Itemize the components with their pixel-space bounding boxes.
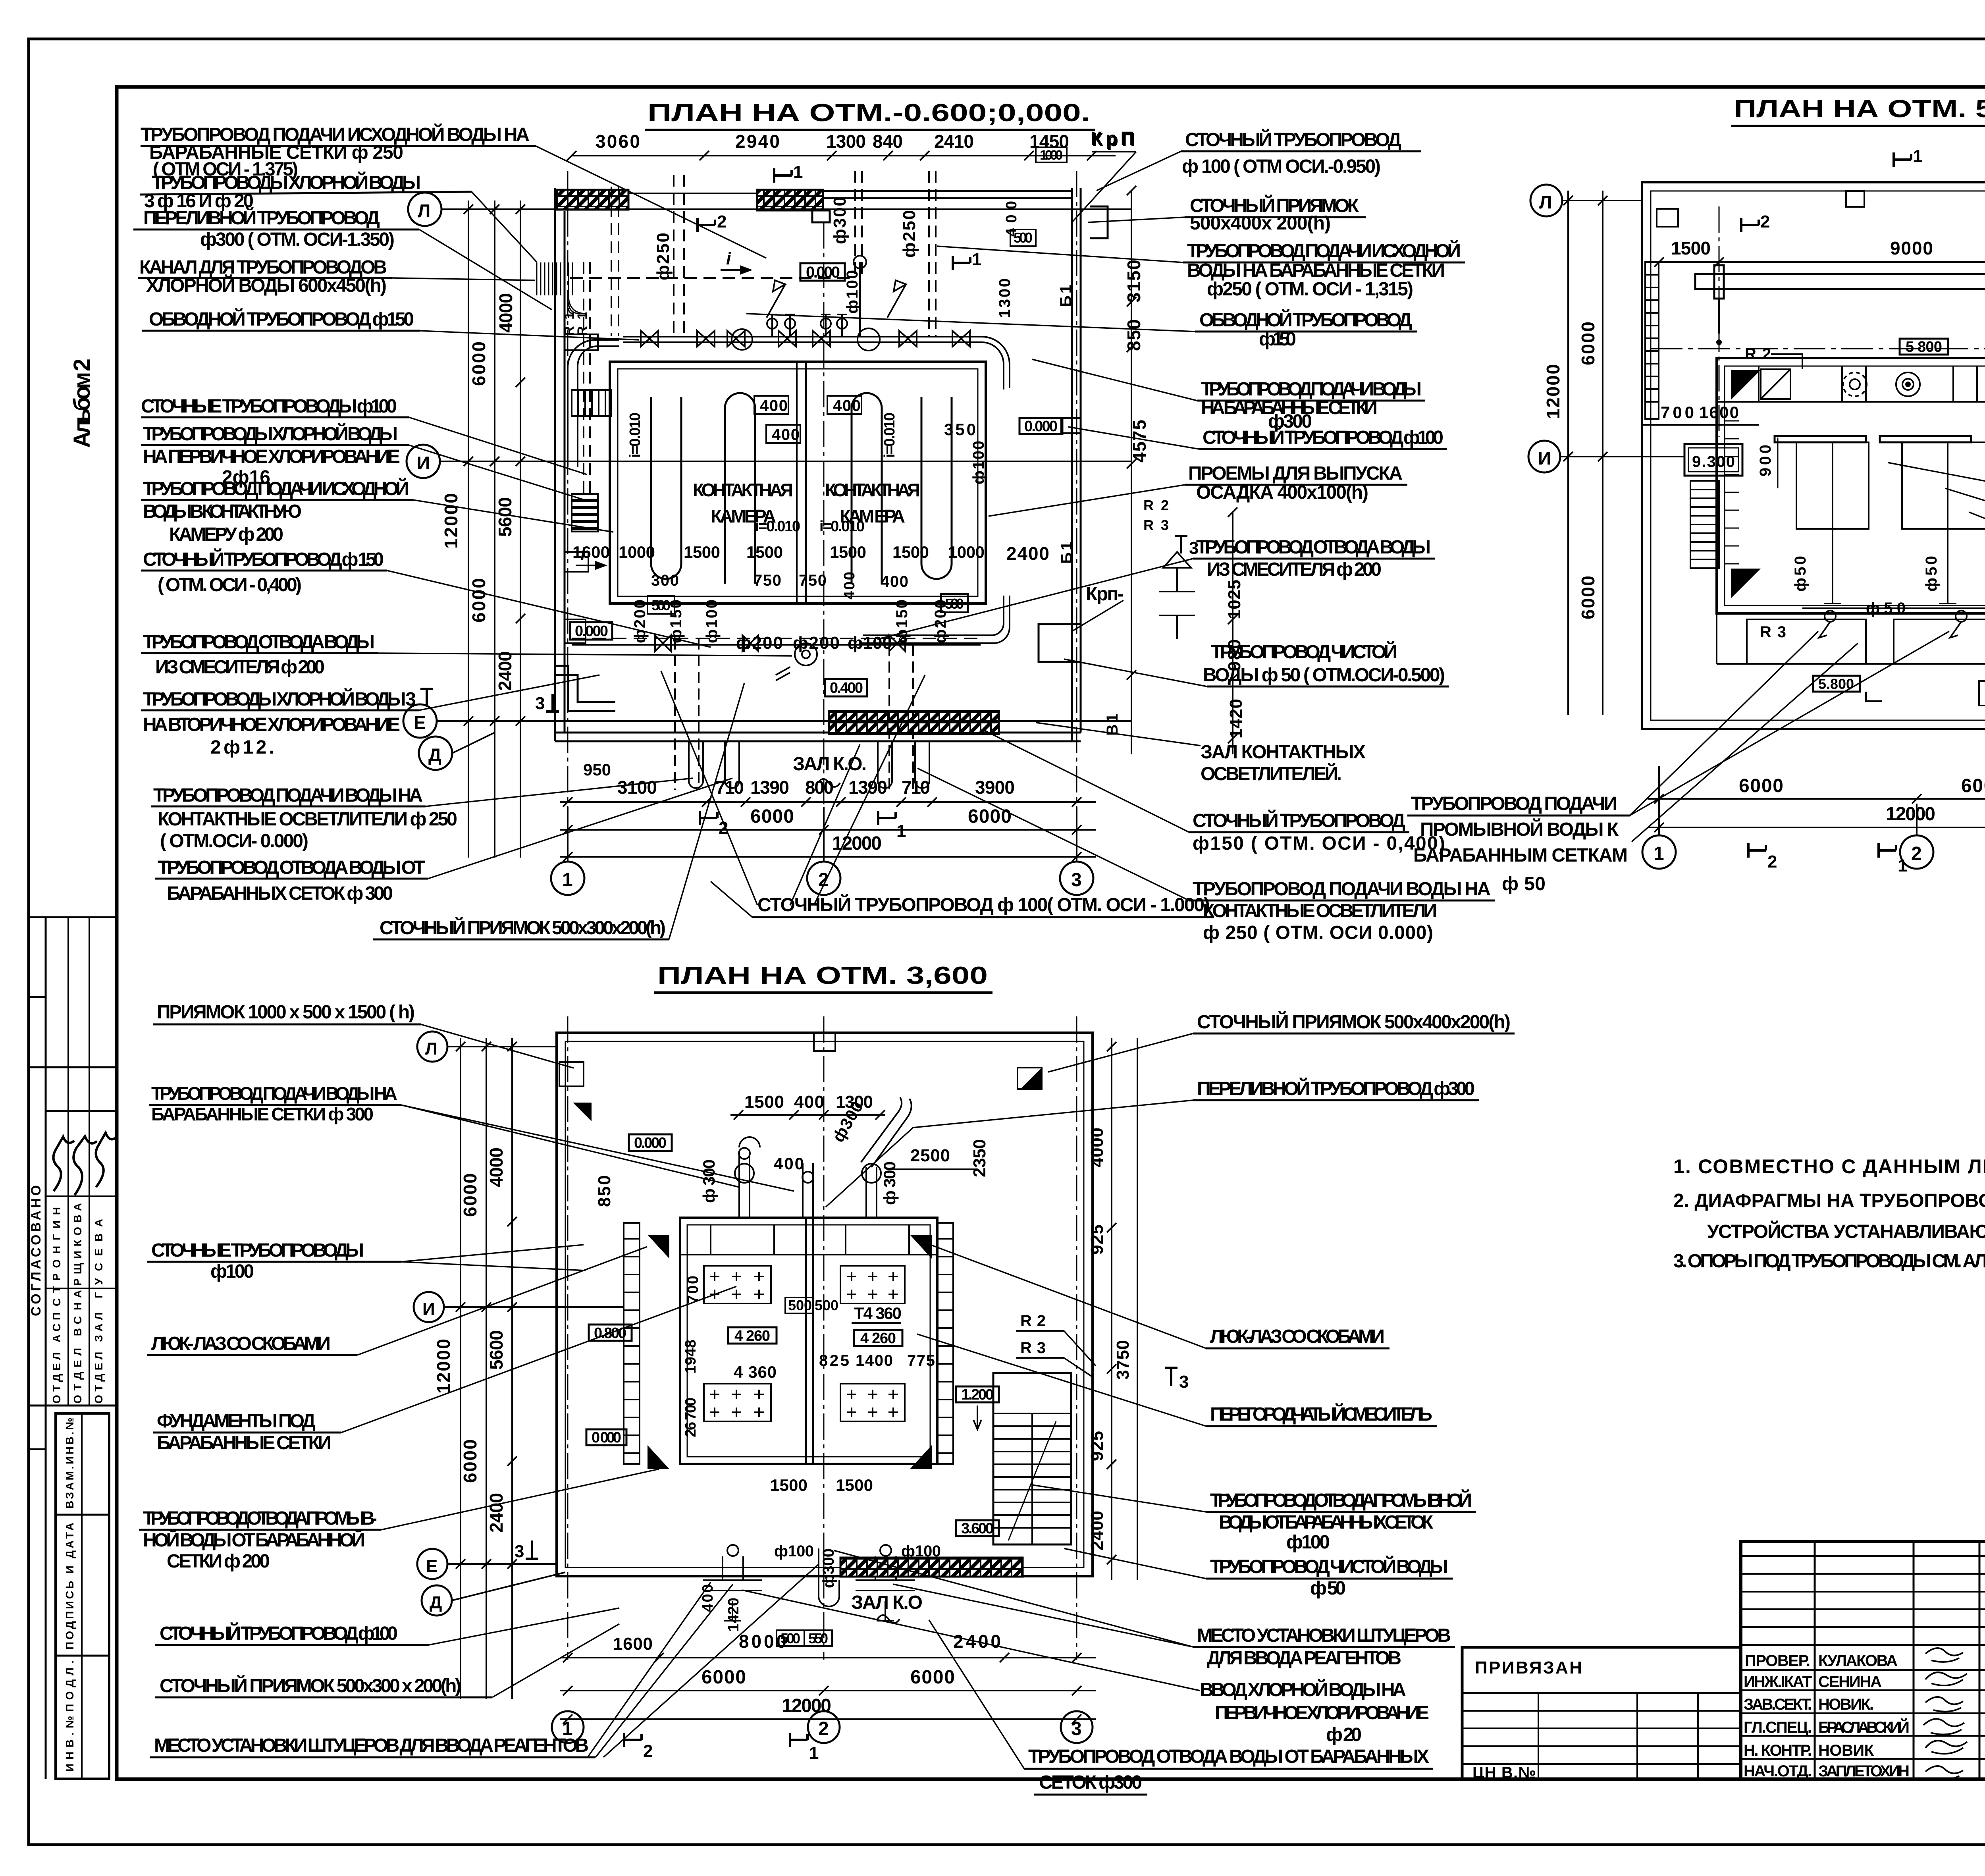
svg-text:ПРОМЫВНОЙ ВОДЫ К: ПРОМЫВНОЙ ВОДЫ К [1420,818,1619,840]
svg-text:1948: 1948 [682,1340,699,1374]
svg-text:СТОЧНЫЙ ПРИЯМОК 500х400х200(: СТОЧНЫЙ ПРИЯМОК 500х400х200(h) [1197,1011,1511,1033]
svg-text:2400: 2400 [495,651,515,691]
svg-text:ф 250 ( ОТМ. ОСИ 0.000): ф 250 ( ОТМ. ОСИ 0.000) [1203,922,1433,943]
plan2 building outer walls [1642,182,1985,729]
svg-text:9.300: 9.300 [1692,453,1735,470]
plan1 black striped block [572,494,598,532]
svg-text:Б1: Б1 [1058,542,1075,564]
svg-text:ЗАЛ К.О: ЗАЛ К.О [851,1592,923,1613]
svg-text:1500: 1500 [746,543,783,561]
plan2 top wall lugs [1846,191,1864,207]
svg-text:500: 500 [815,1297,838,1313]
svg-text:ф200: ф200 [793,633,840,653]
plan1 bottom wall [555,733,1081,741]
svg-text:ОБВОДНОЙ ТРУБОПРОВОД: ОБВОДНОЙ ТРУБОПРОВОД [1199,309,1412,331]
plan2 f50 taps [1792,556,1985,638]
svg-text:2410: 2410 [934,131,974,152]
svg-text:КОНТАКТНАЯ: КОНТАКТНАЯ [693,480,793,500]
svg-text:3.600: 3.600 [961,1520,994,1537]
plan3 dim 2500 2350 850 [595,1139,989,1207]
svg-text:ПРИЯМОК 1000 х 500 х 1500 ( h: ПРИЯМОК 1000 х 500 х 1500 ( h) [157,1002,415,1023]
svg-text:Альбом 2: Альбом 2 [69,359,95,448]
plan2 crane rails dashdot [1719,206,1985,715]
svg-text:ТРУБОПРОВОД ОТВОДА ПРОМЫВ-: ТРУБОПРОВОД ОТВОДА ПРОМЫВ- [143,1508,377,1529]
svg-text:ЛЮК- ЛАЗ СО СКОБАМИ: ЛЮК- ЛАЗ СО СКОБАМИ [151,1333,331,1354]
plan3 axis circles 1 2 3 [552,1711,1093,1743]
plan3 stairs level boxes [956,1386,999,1537]
svg-text:КУЛАКОВА: КУЛАКОВА [1818,1652,1898,1670]
svg-text:2400: 2400 [1087,1511,1107,1550]
plan1 section T3 right [1175,536,1199,558]
plan2 horizontal line below beam [1651,348,1985,349]
svg-text:СТОЧНЫЙ ПРИЯМОК 500х300х200(h: СТОЧНЫЙ ПРИЯМОК 500х300х200(h) [380,917,666,939]
svg-text:2. ДИАФРАГМЫ НА ТРУБОПРОВОД: 2. ДИАФРАГМЫ НА ТРУБОПРОВОДА ПОДАЧИ СЫРО… [1673,1190,1985,1211]
svg-text:И: И [417,453,430,473]
svg-text:400: 400 [794,1092,824,1112]
plan1 baffle U left chamber [651,397,681,579]
plan2 crane beam [1695,265,1985,299]
plan2 inner chamber box [1717,358,1985,613]
svg-text:2: 2 [1911,843,1922,864]
svg-text:Е: Е [426,1556,437,1576]
plan3 title [654,962,992,993]
plan1 left outside step pipes [555,666,615,711]
svg-text:ф 100 ( ОТМ ОСИ.-0.950): ф 100 ( ОТМ ОСИ.-0.950) [1182,156,1381,177]
plan1 left dim chains [468,201,525,858]
plan3 level boxes left [586,1325,632,1446]
plan1 right outside wall pieces [1039,206,1195,662]
svg-text:ИНЖ.IКАТ: ИНЖ.IКАТ [1744,1673,1812,1691]
svg-text:400: 400 [841,572,858,600]
plan1 i arrows [576,249,750,569]
svg-text:0.000: 0.000 [634,1135,667,1151]
svg-text:700: 700 [685,1276,701,1303]
svg-text:2: 2 [1760,212,1770,231]
plan1 axis circle L [408,193,441,226]
plan2 left wall hatch band [1645,262,1659,419]
svg-text:И: И [1538,448,1551,469]
svg-text:1: 1 [793,162,803,182]
svg-text:ф250: ф250 [653,233,673,280]
title block signatures [1923,1648,1967,1780]
plan1 building axis dashdot lines [568,171,1077,858]
svg-text:СТОЧНЫЙ ТРУБОПРОВОД: СТОЧНЫЙ ТРУБОПРОВОД [1185,129,1401,150]
plan3 stairs right [993,1373,1071,1544]
svg-text:СТОЧНЫЕ ТРУБОПРОВОДЫ: СТОЧНЫЕ ТРУБОПРОВОДЫ [151,1240,364,1261]
svg-text:12000: 12000 [782,1695,831,1716]
svg-text:1.200: 1.200 [961,1386,994,1403]
plan1 contact chamber outer box [610,362,986,603]
svg-text:900: 900 [1757,445,1774,476]
svg-text:НАРЩИКОВА: НАРЩИКОВА [71,1203,84,1310]
svg-text:НОВИК: НОВИК [1818,1742,1874,1759]
svg-text:4575: 4575 [1129,420,1150,463]
svg-text:0.000: 0.000 [1024,418,1058,435]
svg-text:6000: 6000 [1739,775,1783,796]
plan1 bottom dims row1 [583,760,1015,798]
svg-text:ТРУБОПРОВОД ПОДАЧИ ИСХОДНОЙ: ТРУБОПРОВОД ПОДАЧИ ИСХОДНОЙ [143,478,409,499]
svg-text:НОЙ ВОДЫ ОТ БАРАБАННОЙ: НОЙ ВОДЫ ОТ БАРАБАННОЙ [143,1529,365,1551]
svg-text:ПЕРЕЛИВНОЙ ТРУБОПРОВОД: ПЕРЕЛИВНОЙ ТРУБОПРОВОД [143,207,380,229]
svg-text:ТРУБОПРОВОД ОТВОДА ВОДЫ ОТ: ТРУБОПРОВОД ОТВОДА ВОДЫ ОТ [158,857,425,878]
svg-text:ВОДЫ В КОНТАКТНУЮ: ВОДЫ В КОНТАКТНУЮ [143,501,302,522]
plan2 level box 5800 bottom [1813,676,1882,701]
svg-text:850: 850 [1124,319,1144,351]
svg-text:850: 850 [595,1175,614,1207]
plan3 axis dashdot verticals [568,1016,1077,1660]
svg-text:ЗАПЛЕТОХИН: ЗАПЛЕТОХИН [1818,1762,1910,1780]
svg-text:Крп-: Крп- [1086,584,1124,605]
svg-text:ф300: ф300 [820,1548,837,1588]
plan3 right hatch wall band [937,1223,953,1464]
plan1 valve manifold pipe [623,337,982,342]
svg-text:ТРУБОПРОВОДЫ ХЛОРНОЙ ВОДЫ: ТРУБОПРОВОДЫ ХЛОРНОЙ ВОДЫ [143,423,398,445]
svg-text:1000: 1000 [619,543,655,561]
svg-text:ф150: ф150 [667,600,685,643]
svg-text:12000: 12000 [441,493,461,549]
plan1 lower pipe labels [631,600,949,653]
svg-text:1: 1 [896,821,906,841]
plan1 left wall internal stairs [572,390,611,416]
svg-text:СТОЧНЫЙ ТРУБОПРОВОД ф 150: СТОЧНЫЙ ТРУБОПРОВОД ф 150 [143,548,384,570]
svg-text:ТРУБОПРОВОД ОТВОДА ВОДЫ: ТРУБОПРОВОД ОТВОДА ВОДЫ [143,632,375,653]
svg-text:СТОЧНЫЙ ТРУБОПРОВОД: СТОЧНЫЙ ТРУБОПРОВОД [1193,810,1405,831]
svg-text:1300: 1300 [826,131,866,152]
plan1 right leaders [746,151,1207,900]
plan3 right dim chains [1107,1038,1137,1580]
svg-text:3100: 3100 [617,777,657,798]
svg-text:1: 1 [809,1743,819,1763]
svg-text:1400: 1400 [856,1352,893,1369]
plan1 top wall lines [628,191,1072,198]
svg-text:ТРУБОПРОВОД ОТВОДА ВОДЫ: ТРУБОПРОВОД ОТВОДА ВОДЫ [1196,537,1431,558]
plan1 chamber texts [627,413,920,535]
plan2 feed pipe label left [1411,793,1628,895]
plan2 level box 5800 top [1900,339,1948,355]
svg-text:2400: 2400 [486,1493,507,1533]
svg-text:ф 50: ф 50 [1502,873,1546,895]
svg-text:400: 400 [772,426,800,443]
svg-text:ТРУБОПРОВОД ЧИСТОЙ ВОДЫ: ТРУБОПРОВОД ЧИСТОЙ ВОДЫ [1210,1556,1448,1577]
svg-text:1500: 1500 [836,1476,873,1494]
svg-text:ТРУБОПРОВОД ПОДАЧИ ИСХОДНОЙ: ТРУБОПРОВОД ПОДАЧИ ИСХОДНОЙ [1187,240,1461,262]
plan1 left label underlines [133,146,669,939]
plan2 left dim chains [1568,191,1603,715]
svg-text:ТРУБОПРОВОД ПОДАЧИ ВОДЫ НА: ТРУБОПРОВОД ПОДАЧИ ВОДЫ НА [153,785,423,806]
svg-text:ТРУБОПРОВОДЫ ХЛОРНОЙ ВОДЫ: ТРУБОПРОВОДЫ ХЛОРНОЙ ВОДЫ [152,172,421,193]
svg-text:СЕТОК ф300: СЕТОК ф300 [1039,1772,1142,1793]
plan3 level box 0.000 top [629,1134,672,1151]
plan3 left leaders [341,1024,819,1757]
svg-text:ТРУБОПРОВОД ПОДАЧИ ВОДЫ: ТРУБОПРОВОД ПОДАЧИ ВОДЫ [1201,379,1422,400]
plan1 axis circle 3 [1060,807,1093,895]
plan1 title [645,99,1095,130]
plan3 small dims inside [682,1276,935,1494]
svg-text:ПЛАН НА ОТМ. 3,600: ПЛАН НА ОТМ. 3,600 [657,962,988,989]
plan1 right side dim chains [1127,186,1237,754]
svg-text:Т4 360: Т4 360 [854,1304,902,1323]
svg-text:СЕНИНА: СЕНИНА [1818,1673,1882,1691]
svg-text:500: 500 [788,1297,812,1313]
svg-text:ф300 ( ОТМ. ОСИ-1.350): ф300 ( ОТМ. ОСИ-1.350) [200,229,395,250]
plan1 right label underlines [1181,151,1495,900]
plan1 axis circle 2 [807,807,840,895]
plan3 left hatch wall band [624,1223,640,1464]
svg-text:4 360: 4 360 [734,1363,777,1381]
svg-text:1: 1 [1913,147,1922,166]
left stamp column verticals [28,917,89,1779]
svg-text:3: 3 [535,694,545,713]
svg-text:12000: 12000 [1886,804,1935,825]
svg-text:2: 2 [717,212,727,231]
svg-text:СОГЛАСОВАНО: СОГЛАСОВАНО [29,1185,44,1316]
plan2 top dims [1671,238,1985,258]
svg-text:i=0.010: i=0.010 [627,413,644,458]
svg-text:Д: Д [428,744,441,765]
svg-text:0 000: 0 000 [592,1429,621,1446]
svg-text:1025: 1025 [1225,580,1244,619]
plan3 R2 R3 labels [1016,1312,1096,1378]
svg-text:БАРАБАННЫХ СЕТОК ф 300: БАРАБАННЫХ СЕТОК ф 300 [167,883,393,904]
svg-text:i: i [726,249,731,268]
plan2 axis I circle [1528,441,1684,472]
svg-text:400: 400 [774,1154,804,1173]
svg-text:ЗАВ.СЕКТ.: ЗАВ.СЕКТ. [1744,1696,1812,1713]
svg-text:ф 20: ф 20 [1326,1724,1362,1745]
svg-text:1600: 1600 [613,1634,653,1654]
svg-text:825: 825 [819,1352,849,1369]
svg-text:i=0.010: i=0.010 [755,518,800,535]
plan1 baffle ∩ left chamber [725,393,755,584]
svg-text:700: 700 [1661,403,1694,422]
svg-text:МЕСТО УСТАНОВКИ ШТУЦЕРОВ: МЕСТО УСТАНОВКИ ШТУЦЕРОВ [1197,1625,1451,1646]
svg-text:3: 3 [1179,1372,1189,1392]
svg-text:6000: 6000 [910,1667,955,1688]
svg-text:710: 710 [715,777,744,798]
svg-text:НОВИК.: НОВИК. [1818,1696,1874,1713]
svg-text:МЕСТО УСТАНОВКИ ШТУЦЕРОВ ДЛ: МЕСТО УСТАНОВКИ ШТУЦЕРОВ ДЛЯ ВВОДА РЕАГЕ… [154,1735,589,1756]
plan2 chamber top cells [1717,366,1985,402]
svg-text:5 800: 5 800 [1906,339,1942,355]
svg-text:ф150 ( ОТМ. ОСИ - 0,400): ф150 ( ОТМ. ОСИ - 0,400) [1193,833,1445,854]
svg-text:5600: 5600 [495,497,515,537]
svg-text:4 260: 4 260 [734,1328,770,1344]
signatures squiggles [54,1137,75,1191]
svg-text:ОБВОДНОЙ ТРУБОПРОВОД ф150: ОБВОДНОЙ ТРУБОПРОВОД ф150 [149,308,414,330]
svg-text:2: 2 [1767,852,1777,871]
plan2 title [1731,95,1985,126]
svg-text:1500: 1500 [770,1476,807,1494]
svg-text:12000: 12000 [433,1339,454,1394]
plan3 foundation blocks with plus marks [704,1266,905,1421]
plan3 top dims 1500 400 1300 [744,1092,873,1112]
svg-text:ПЕРВИЧНОЕ ХЛОРИРОВАНИЕ: ПЕРВИЧНОЕ ХЛОРИРОВАНИЕ [1215,1702,1429,1724]
plan1 section marks bottom [698,162,981,841]
svg-text:0.000: 0.000 [575,623,608,640]
svg-text:925: 925 [1087,1224,1107,1255]
svg-text:4000: 4000 [1087,1128,1107,1167]
svg-text:500х400х 200(h): 500х400х 200(h) [1190,213,1331,234]
svg-text:3. ОПОРЫ ПОД ТРУБОПРОВОДЫ: 3. ОПОРЫ ПОД ТРУБОПРОВОДЫ СМ. АЛЬБОМ 3. [1673,1251,1985,1272]
svg-text:1420: 1420 [725,1598,742,1632]
svg-text:710: 710 [902,777,930,798]
plan3 bottom dims row2 [701,1667,955,1688]
svg-text:925: 925 [1087,1431,1107,1461]
plan3 black triangles chamber [648,1235,932,1469]
plan1 hydrant symbols on manifold [767,280,906,337]
title block main row line [1741,1644,1985,1646]
svg-text:ф50: ф50 [1923,556,1940,592]
svg-text:ТРУБОПРОВОД ПОДАЧИ ВОДЫ НА: ТРУБОПРОВОД ПОДАЧИ ВОДЫ НА [151,1083,397,1104]
svg-text:БРАСЛАВСКИЙ: БРАСЛАВСКИЙ [1818,1718,1910,1736]
title block name rows [1741,1670,1985,1759]
svg-text:ПРОВЕР.: ПРОВЕР. [1745,1652,1810,1670]
svg-text:26 700: 26 700 [682,1398,699,1437]
left stamp horizontals [28,917,117,1449]
plan3 500 550 boxes [777,1630,832,1647]
svg-text:ТРУБОПРОВОД ПОДАЧИ ВОДЫ НА: ТРУБОПРОВОД ПОДАЧИ ВОДЫ НА [1193,879,1491,900]
plan3 T3 mark right [1165,1368,1189,1392]
title block upper mini table [1741,1556,1985,1627]
svg-text:ПРОЕМЫ ДЛЯ ВЫПУСКА: ПРОЕМЫ ДЛЯ ВЫПУСКА [1188,463,1403,484]
svg-text:Л: Л [418,201,430,221]
plan3 bottom dims row1 [613,1631,1001,1654]
svg-text:( ОТМ.ОСИ- 0.000): ( ОТМ.ОСИ- 0.000) [160,831,308,852]
svg-text:БАРАБАННЫЕ СЕТКИ: БАРАБАННЫЕ СЕТКИ [157,1433,331,1454]
svg-text:СТОЧНЫЙ ПРИЯМОК 500х300 х 20: СТОЧНЫЙ ПРИЯМОК 500х300 х 200(h) [160,1675,461,1697]
svg-text:СТОЧНЫЙ ТРУБОПРОВОД ф100: СТОЧНЫЙ ТРУБОПРОВОД ф100 [160,1622,398,1644]
svg-text:КрП: КрП [1091,128,1134,149]
plan1 bottom dim line1 [560,797,1096,807]
svg-text:ТРУБОПРОВОД ПОДАЧИ: ТРУБОПРОВОД ПОДАЧИ [1411,793,1617,814]
plan2 R3 labels bottom [1760,623,1985,641]
svg-text:ф100: ф100 [844,270,861,314]
svg-text:1390: 1390 [750,777,789,798]
svg-text:2: 2 [818,1718,829,1739]
plan1 top-middle hatched wall [757,190,823,210]
plan1 axis circle E [403,704,437,738]
svg-text:1: 1 [1898,856,1907,875]
plan2 dim 900 [1757,438,1778,488]
svg-text:6000: 6000 [1961,775,1985,796]
plan1 level boxes [570,147,1067,696]
svg-text:500: 500 [1014,229,1033,246]
svg-text:СТОЧНЫЙ ТРУБОПРОВОД ф100: СТОЧНЫЙ ТРУБОПРОВОД ф100 [1203,426,1443,448]
svg-text:1000: 1000 [1040,148,1063,163]
svg-text:840: 840 [873,131,903,152]
svg-text:i=0.010: i=0.010 [881,413,898,458]
plan1 axis circle I [407,445,440,478]
svg-text:ФУНДАМЕНТЫ ПОД: ФУНДАМЕНТЫ ПОД [157,1411,316,1432]
plan3 bottom section marks [624,1733,819,1763]
svg-text:4000: 4000 [495,293,516,333]
plan1 axis circle 1 [551,807,584,895]
plan3 right leaders [742,1033,1206,1769]
svg-text:1500: 1500 [830,543,866,561]
plan1 3T mark left [535,694,559,713]
svg-text:6000: 6000 [750,806,794,827]
svg-text:ИЗ СМЕСИТЕЛЯ ф 200: ИЗ СМЕСИТЕЛЯ ф 200 [155,657,325,678]
plan1 secondary chlorination T symbol [420,689,433,707]
svg-text:2: 2 [818,870,829,891]
svg-text:Б1: Б1 [1057,285,1075,307]
svg-text:1500: 1500 [684,543,720,561]
svg-text:Л: Л [425,1039,437,1059]
svg-text:СТОЧНЫЕ ТРУБОПРОВОДЫ ф100: СТОЧНЫЕ ТРУБОПРОВОДЫ ф100 [141,396,397,417]
plan2 side wall hatch ticks [1725,421,1985,564]
svg-text:Н. КОНТР.: Н. КОНТР. [1744,1742,1812,1759]
svg-text:3750: 3750 [1113,1340,1133,1380]
svg-text:КОНТАКТНАЯ: КОНТАКТНАЯ [825,480,920,500]
svg-text:ВОДЫ ф 50 ( ОТМ.ОСИ-0.500): ВОДЫ ф 50 ( ОТМ.ОСИ-0.500) [1203,665,1445,686]
svg-text:Е: Е [414,712,426,733]
svg-text:2ф12.: 2ф12. [210,737,274,758]
plan3 bottom pipe labels [700,1542,941,1632]
plan3 chamber top cells [680,1225,937,1255]
plan3 left dim chains [456,1038,517,1699]
svg-text:ОТДЕЛ ЗАЛ: ОТДЕЛ ЗАЛ [93,1312,105,1404]
plan1 building left wall [555,188,565,741]
svg-text:И: И [422,1300,435,1319]
svg-text:3: 3 [515,1542,524,1561]
svg-text:1500: 1500 [892,543,929,561]
plan3 level boxes inside [728,1304,902,1381]
svg-text:ф150: ф150 [893,600,911,643]
plan1 chamber bottom dim row [619,397,985,600]
svg-text:ф100: ф100 [1286,1532,1330,1553]
svg-text:ф200: ф200 [631,600,649,643]
plan1 baffle U right chamber [921,397,952,579]
svg-text:12000: 12000 [1543,364,1563,419]
svg-text:ПЕРЕЛИВНОЙ ТРУБОПРОВОД ф300: ПЕРЕЛИВНОЙ ТРУБОПРОВОД ф300 [1197,1078,1475,1099]
svg-text:ф50: ф50 [1792,556,1809,592]
svg-text:2350: 2350 [970,1139,989,1177]
svg-text:ТРУБОПРОВОД ОТВОДА ВОДЫ ОТ: ТРУБОПРОВОД ОТВОДА ВОДЫ ОТ БАРАБАННЫХ [1028,1746,1429,1767]
plan2 R2 labels top [1745,345,1985,363]
plan1 axis circle D [419,733,495,770]
svg-text:1: 1 [1654,843,1664,864]
svg-text:750: 750 [754,572,781,589]
plan1 chlorine canal comb [537,262,590,336]
svg-text:ф 300: ф 300 [880,1161,899,1205]
svg-text:ЛЮК-ЛАЗ СО СКОБАМИ: ЛЮК-ЛАЗ СО СКОБАМИ [1210,1326,1385,1347]
svg-text:( ОТМ. ОСИ - 0,400): ( ОТМ. ОСИ - 0,400) [158,575,302,596]
svg-text:ф250 ( ОТМ. ОСИ - 1,315): ф250 ( ОТМ. ОСИ - 1,315) [1207,279,1413,300]
plan1 baffle ∩ right chamber [852,393,882,584]
lower stamp boxes [56,1413,109,1779]
plan1 left leaders [378,146,925,939]
left attach table [1462,1647,1741,1779]
plan2 axis circles 1 2 3 [1642,766,1985,869]
plan1 bottom center label waste pipe f100 [711,881,1214,917]
plan1 top-left hatched wall [557,190,628,210]
plan3 left underlines [139,1024,595,1757]
title block vertical columns [1815,1542,1985,1779]
svg-text:1500: 1500 [1671,238,1711,258]
svg-text:1. СОВМЕСТНО С ДАННЫМ ЛИСТОМ: 1. СОВМЕСТНО С ДАННЫМ ЛИСТОМ СМ. ЛИСТЫ Т… [1673,1155,1985,1178]
svg-text:ТРУБОПРОВОД ОТВОДА ПРОМЫВНОЙ: ТРУБОПРОВОД ОТВОДА ПРОМЫВНОЙ [1210,1489,1472,1511]
plan1 extra pipework clutter [568,278,1010,790]
svg-text:5600: 5600 [486,1330,507,1370]
plan1 riser pipes dashed [584,171,936,496]
svg-text:3: 3 [1071,870,1082,891]
svg-text:ТРУБОПРОВОДЫ ХЛОРНОЙ ВОДЫ 3: ТРУБОПРОВОДЫ ХЛОРНОЙ ВОДЫ 3 [143,688,416,710]
svg-text:6000: 6000 [701,1667,746,1688]
plan1 top dimension line with ticks [567,151,1116,160]
svg-text:4 260: 4 260 [860,1330,896,1347]
svg-text:ПЕРЕГОРОДЧАТЫЙ СМЕСИТЕЛЬ: ПЕРЕГОРОДЧАТЫЙ СМЕСИТЕЛЬ [1210,1403,1432,1425]
svg-text:i=0.010: i=0.010 [819,518,865,535]
